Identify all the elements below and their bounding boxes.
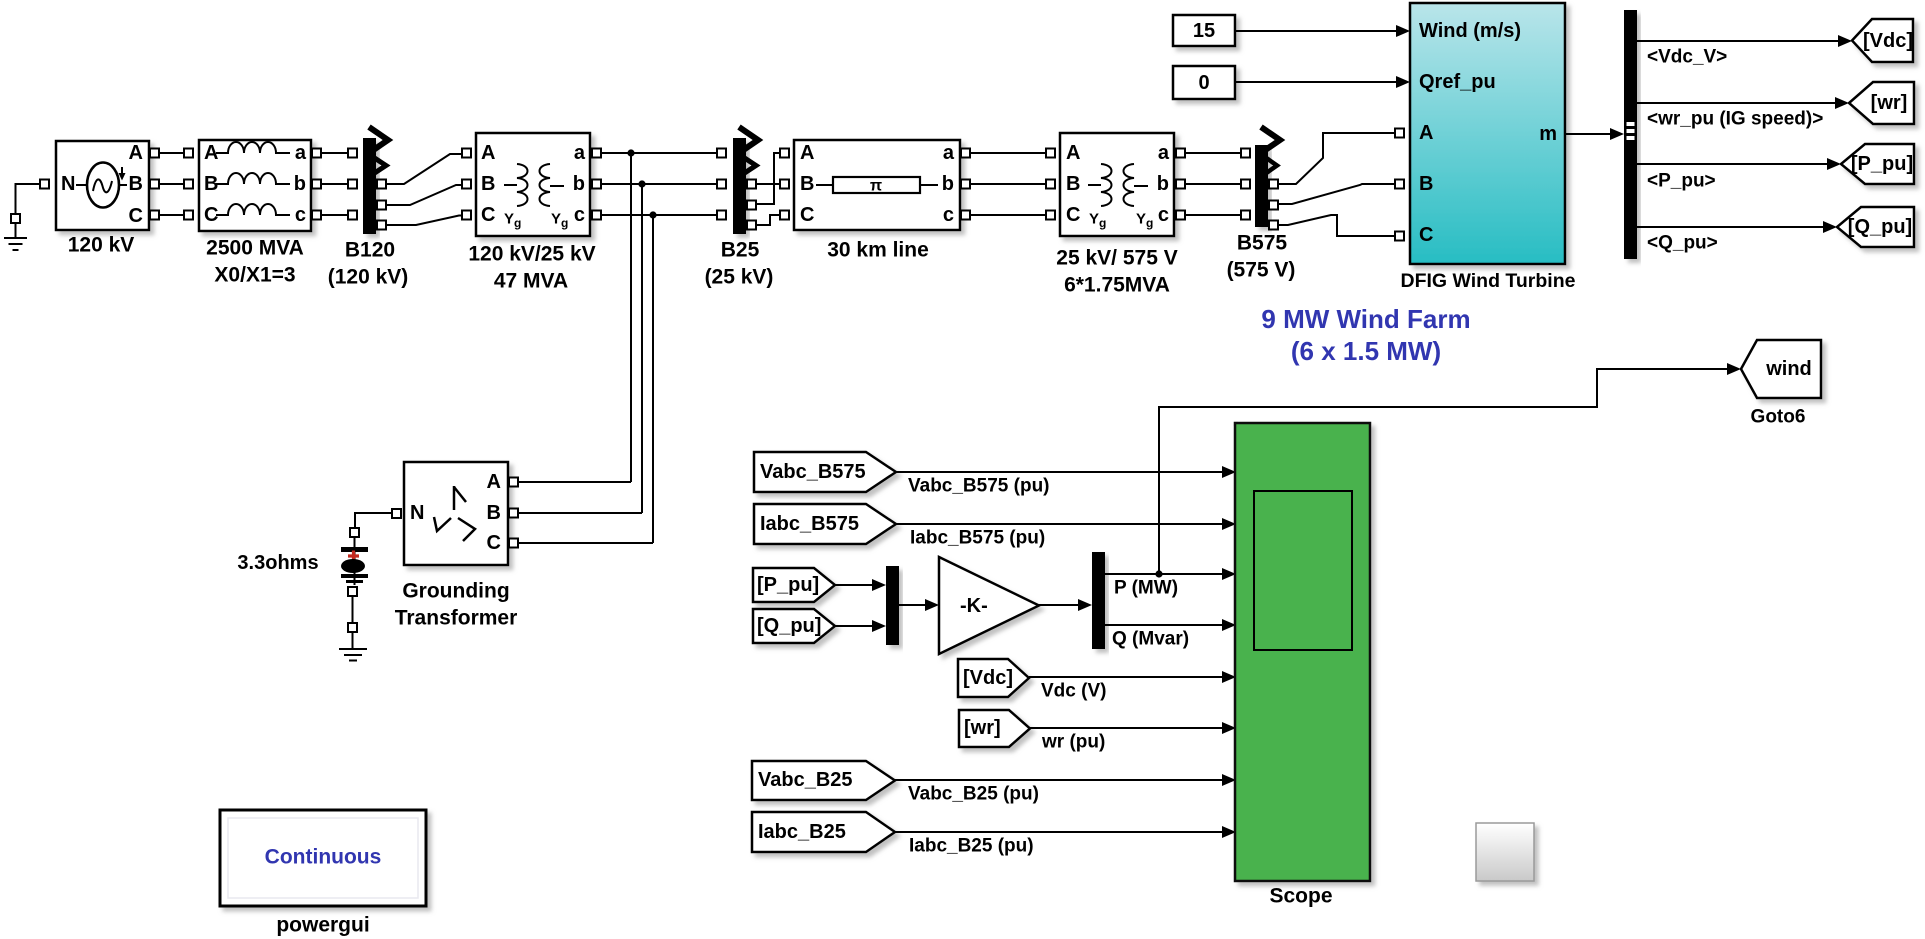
wire inductor c to B120 xyxy=(321,214,348,216)
svg-text:C: C xyxy=(481,204,495,226)
wire Q (Mvar) to scope xyxy=(1105,624,1224,626)
svg-text:120 kV/25 kV: 120 kV/25 kV xyxy=(468,243,595,266)
from tag Iabc_B25 xyxy=(752,812,895,852)
svg-text:[Vdc]: [Vdc] xyxy=(1863,30,1913,52)
wire [wr] to scope xyxy=(1030,727,1224,729)
svg-text:C: C xyxy=(204,204,218,226)
svg-text:(120 kV): (120 kV) xyxy=(328,266,409,289)
svg-text:A: A xyxy=(481,142,495,164)
wire B120 to transformer C xyxy=(386,216,462,226)
B25 output port squares xyxy=(747,180,756,189)
svg-text:c: c xyxy=(943,204,954,226)
svg-text:<Vdc_V>: <Vdc_V> xyxy=(1647,47,1727,68)
svg-text:N: N xyxy=(410,502,424,524)
ground block port square xyxy=(348,623,357,632)
svg-text:Iabc_B575: Iabc_B575 xyxy=(760,513,859,535)
wire [Vdc] to scope xyxy=(1029,676,1224,678)
wire gain to demux xyxy=(1038,604,1080,606)
voltage source block 120 kV xyxy=(56,141,149,230)
svg-text:[Q_pu]: [Q_pu] xyxy=(1848,216,1912,238)
svg-text:47 MVA: 47 MVA xyxy=(494,270,568,293)
svg-text:Grounding: Grounding xyxy=(402,580,509,603)
wire B120 to transformer A xyxy=(386,154,462,184)
goto tag [wr] xyxy=(1849,82,1914,124)
svg-text:A: A xyxy=(204,142,218,164)
wire source A to inductor xyxy=(159,152,184,154)
from tag [P_pu] xyxy=(753,568,835,602)
gain block -K- xyxy=(939,557,1039,654)
wire grounding C xyxy=(518,542,653,544)
RLC branch 3.3ohms icon xyxy=(341,537,368,585)
goto tag [Q_pu] xyxy=(1837,207,1914,247)
svg-text:DFIG Wind Turbine: DFIG Wind Turbine xyxy=(1401,270,1576,292)
svg-text:Iabc_B575 (pu): Iabc_B575 (pu) xyxy=(910,528,1045,549)
svg-text:2500 MVA: 2500 MVA xyxy=(206,237,304,260)
annotation placeholder gray block xyxy=(1476,823,1534,881)
constant block 0 xyxy=(1173,66,1235,99)
svg-text:A: A xyxy=(487,471,501,493)
wire mux to gain xyxy=(899,604,927,606)
svg-text:[wr]: [wr] xyxy=(1871,92,1908,114)
svg-text:B120: B120 xyxy=(345,239,395,262)
svg-text:C: C xyxy=(487,532,501,554)
wire RLC to ground block xyxy=(352,596,354,623)
svg-text:Vabc_B25: Vabc_B25 xyxy=(758,769,853,791)
goto tag wind xyxy=(1741,340,1821,398)
mux bar xyxy=(886,566,899,645)
svg-text:b: b xyxy=(573,173,585,195)
pi-section icon xyxy=(816,177,938,195)
svg-text:Iabc_B25: Iabc_B25 xyxy=(758,821,846,843)
svg-text:[Q_pu]: [Q_pu] xyxy=(757,615,821,637)
goto tag [P_pu] xyxy=(1841,144,1914,184)
svg-text:N: N xyxy=(61,173,75,195)
svg-text:Transformer: Transformer xyxy=(395,607,518,630)
T2 output port squares xyxy=(1176,149,1185,158)
wire B575 to DFIG A xyxy=(1278,133,1394,184)
grounding transformer block xyxy=(404,462,508,565)
grounding transformer port squares xyxy=(392,509,401,518)
wire wr_pu to goto xyxy=(1637,102,1837,104)
svg-text:wind: wind xyxy=(1765,358,1812,380)
wire T2 b to B575 xyxy=(1185,183,1241,185)
svg-text:[P_pu]: [P_pu] xyxy=(757,574,819,596)
svg-text:m: m xyxy=(1539,123,1557,145)
wire [Q_pu] to mux xyxy=(835,625,874,627)
svg-text:A: A xyxy=(1419,122,1433,144)
grounding transformer icon xyxy=(434,486,475,541)
svg-text:30 km line: 30 km line xyxy=(827,239,929,262)
wire T1 c to B25 xyxy=(601,214,717,216)
junction node b xyxy=(638,180,645,187)
T2 winding secondary xyxy=(1124,164,1135,206)
svg-text:wr (pu): wr (pu) xyxy=(1041,732,1105,753)
svg-text:B: B xyxy=(129,173,143,195)
svg-text:(6 x 1.5 MW): (6 x 1.5 MW) xyxy=(1291,336,1441,366)
wire Q_pu to goto xyxy=(1637,226,1825,228)
wire 15 to Wind input xyxy=(1235,30,1398,32)
line block input port squares xyxy=(780,149,789,158)
svg-text:c: c xyxy=(295,204,306,226)
svg-text:Iabc_B25 (pu): Iabc_B25 (pu) xyxy=(909,836,1034,857)
svg-text:C: C xyxy=(1419,224,1433,246)
B120 bus bar xyxy=(363,138,376,234)
inductor block input port squares xyxy=(184,149,193,158)
svg-text:B575: B575 xyxy=(1237,232,1288,255)
wire line a to T2 xyxy=(970,152,1051,154)
wire source B to inductor xyxy=(159,183,184,185)
svg-text:A: A xyxy=(1066,142,1080,164)
svg-text:C: C xyxy=(1066,204,1080,226)
junction node c xyxy=(649,211,656,218)
svg-text:9 MW Wind Farm: 9 MW Wind Farm xyxy=(1261,304,1470,334)
svg-text:Q (Mvar): Q (Mvar) xyxy=(1112,629,1189,650)
wire T1 a to B25 xyxy=(601,152,717,154)
bus selector white dashes xyxy=(1627,122,1635,126)
port square ground G1 xyxy=(11,214,20,223)
wire m to bus selector xyxy=(1565,133,1611,135)
wire B25 to line B straight xyxy=(756,183,780,185)
svg-text:[P_pu]: [P_pu] xyxy=(1851,153,1913,175)
svg-text:a: a xyxy=(943,142,955,164)
svg-text:Vabc_B575 (pu): Vabc_B575 (pu) xyxy=(908,476,1050,497)
svg-text:b: b xyxy=(1157,173,1169,195)
inductor coil phase C xyxy=(216,204,290,215)
B575 bus bar xyxy=(1255,145,1268,227)
wire B575 to DFIG B xyxy=(1278,184,1394,204)
goto tag [Vdc] xyxy=(1852,19,1913,62)
svg-text:a: a xyxy=(1158,142,1170,164)
svg-text:-K-: -K- xyxy=(960,595,988,617)
T2 input port squares xyxy=(1046,149,1055,158)
RLC branch port square bottom xyxy=(348,587,357,596)
wire T2 c to B575 xyxy=(1185,214,1241,216)
svg-text:[wr]: [wr] xyxy=(964,717,1001,739)
wire c down to grounding transformer C xyxy=(652,215,654,543)
svg-text:π: π xyxy=(870,178,882,195)
demux bar xyxy=(1092,552,1105,649)
svg-text:3.3ohms: 3.3ohms xyxy=(237,552,318,574)
svg-text:120 kV: 120 kV xyxy=(68,234,135,257)
wire a down to grounding transformer A xyxy=(630,153,632,482)
wire Iabc_B25 to scope xyxy=(895,831,1224,833)
svg-text:[Vdc]: [Vdc] xyxy=(963,667,1013,689)
svg-text:C: C xyxy=(800,204,814,226)
svg-text:b: b xyxy=(294,173,306,195)
wire B120 to transformer B xyxy=(386,185,462,205)
svg-text:B: B xyxy=(204,173,218,195)
ground symbol G1 (source neutral ground) xyxy=(4,223,27,250)
RLC branch port square top xyxy=(350,528,359,537)
svg-text:A: A xyxy=(800,142,814,164)
wire 0 to Qref input xyxy=(1235,81,1398,83)
wire Vabc_B575 to scope xyxy=(896,471,1224,473)
svg-text:Scope: Scope xyxy=(1269,885,1332,908)
wire B575 to DFIG C xyxy=(1278,215,1394,236)
T2 winding stubs xyxy=(1088,184,1101,186)
from tag Iabc_B575 xyxy=(754,504,896,544)
source AC icon xyxy=(76,163,127,208)
wire B25 port3 to line C xyxy=(756,215,780,225)
DFIG input port squares A B C xyxy=(1395,129,1404,138)
wire T1 b to B25 xyxy=(601,183,717,185)
svg-text:B: B xyxy=(800,173,814,195)
wire grounding B xyxy=(518,512,642,514)
from tag [Vdc] xyxy=(958,659,1029,697)
B120 output port squares xyxy=(377,180,386,189)
wire [P_pu] to mux xyxy=(835,584,874,586)
svg-text:Goto6: Goto6 xyxy=(1751,407,1806,428)
B575 breaker chevrons xyxy=(1261,127,1280,153)
DFIG Wind Turbine block xyxy=(1410,3,1565,264)
wire wind tap to goto wind xyxy=(1159,369,1729,574)
wire P_pu to goto xyxy=(1637,163,1829,165)
wire inductor b to B120 xyxy=(321,183,348,185)
wire T2 a to B575 xyxy=(1185,152,1241,154)
svg-text:a: a xyxy=(574,142,586,164)
inductor output port squares xyxy=(312,149,321,158)
svg-text:powergui: powergui xyxy=(276,914,369,937)
svg-text:A: A xyxy=(129,142,143,164)
constant block 15 xyxy=(1173,15,1235,46)
svg-text:25 kV/ 575 V: 25 kV/ 575 V xyxy=(1056,247,1177,270)
wire N to ground xyxy=(16,184,42,214)
svg-text:X0/X1=3: X0/X1=3 xyxy=(214,264,295,287)
bus selector bar xyxy=(1624,10,1637,259)
svg-text:c: c xyxy=(574,204,585,226)
svg-text:<wr_pu (IG speed)>: <wr_pu (IG speed)> xyxy=(1647,109,1823,130)
svg-text:Qref_pu: Qref_pu xyxy=(1419,71,1496,93)
line block output port squares xyxy=(961,149,970,158)
svg-text:0: 0 xyxy=(1198,72,1209,94)
port square source N xyxy=(40,180,49,189)
from tag Vabc_B575 xyxy=(754,452,896,492)
svg-text:B: B xyxy=(487,502,501,524)
svg-text:b: b xyxy=(942,173,954,195)
svg-text:<P_pu>: <P_pu> xyxy=(1647,171,1716,192)
svg-text:<Q_pu>: <Q_pu> xyxy=(1647,233,1718,254)
wire inductor a to B120 xyxy=(321,152,348,154)
svg-text:B25: B25 xyxy=(721,239,760,262)
from tag Vabc_B25 xyxy=(752,761,895,800)
svg-text:a: a xyxy=(295,142,307,164)
inductor coil phase B xyxy=(216,173,290,184)
wire source C to inductor xyxy=(159,214,184,216)
from tag [wr] xyxy=(959,710,1030,747)
powergui block xyxy=(220,810,426,906)
B25 bus bar xyxy=(733,138,746,234)
from tag [Q_pu] xyxy=(753,609,835,643)
wire Iabc_B575 to scope xyxy=(896,523,1224,525)
scope block xyxy=(1235,423,1370,881)
svg-text:C: C xyxy=(129,205,143,227)
wire b down to grounding transformer B xyxy=(641,184,643,513)
wire N to RLC branch xyxy=(355,513,392,528)
B25 breaker chevrons xyxy=(739,127,758,153)
transformer T1 input port squares xyxy=(462,149,471,158)
B120 bus input port squares xyxy=(348,149,357,158)
scope inner screen rect xyxy=(1254,491,1352,650)
svg-text:(25 kV): (25 kV) xyxy=(705,266,774,289)
wire P (MW) to scope xyxy=(1105,573,1224,575)
svg-text:Vabc_B25 (pu): Vabc_B25 (pu) xyxy=(908,784,1039,805)
svg-text:B: B xyxy=(1066,173,1080,195)
transformer block 120 kV/25 kV 47 MVA xyxy=(476,133,590,236)
inductor coil phase A xyxy=(216,142,290,153)
svg-text:Vdc (V): Vdc (V) xyxy=(1041,681,1106,702)
junction node wind tap xyxy=(1155,570,1162,577)
transformer block 25 kV/575 V xyxy=(1060,133,1174,236)
svg-text:(575 V): (575 V) xyxy=(1227,259,1296,282)
junction node a xyxy=(627,149,634,156)
svg-text:Continuous: Continuous xyxy=(265,846,382,869)
B575 output port squares xyxy=(1269,180,1278,189)
B120 breaker chevrons xyxy=(369,127,388,153)
svg-text:Wind (m/s): Wind (m/s) xyxy=(1419,20,1521,42)
wire Vdc_V to goto xyxy=(1637,40,1840,42)
wire B25 port2 up to line A xyxy=(756,153,780,204)
T1 winding stubs xyxy=(504,184,517,186)
wire line c to T2 xyxy=(970,214,1051,216)
30 km line block xyxy=(794,140,960,230)
svg-text:15: 15 xyxy=(1193,20,1215,42)
wire grounding A xyxy=(518,481,631,483)
svg-text:B: B xyxy=(1419,173,1433,195)
wire line b to T2 xyxy=(970,183,1051,185)
svg-text:P (MW): P (MW) xyxy=(1114,578,1178,599)
T1 winding primary xyxy=(517,164,528,206)
source impedance block 2500 MVA xyxy=(199,140,311,231)
B575 input port squares xyxy=(1241,149,1250,158)
wire Vabc_B25 to scope xyxy=(895,779,1224,781)
svg-text:B: B xyxy=(481,173,495,195)
T1 output port squares xyxy=(592,149,601,158)
svg-text:c: c xyxy=(1158,204,1169,226)
svg-text:Vabc_B575: Vabc_B575 xyxy=(760,461,866,483)
ground symbol G2 xyxy=(339,632,367,661)
B25 bus input port squares xyxy=(717,149,726,158)
source output port squares xyxy=(150,149,159,158)
T2 winding primary xyxy=(1101,164,1112,206)
svg-text:6*1.75MVA: 6*1.75MVA xyxy=(1064,274,1170,297)
T1 winding secondary xyxy=(540,164,551,206)
